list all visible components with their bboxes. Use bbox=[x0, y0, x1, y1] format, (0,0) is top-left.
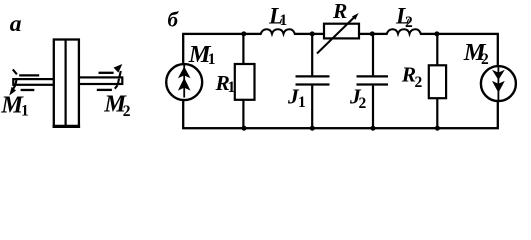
svg-text:1: 1 bbox=[280, 12, 288, 29]
svg-text:2: 2 bbox=[123, 103, 131, 120]
svg-text:2: 2 bbox=[405, 14, 413, 31]
svg-text:б: б bbox=[168, 8, 180, 32]
svg-text:1: 1 bbox=[208, 51, 216, 68]
svg-text:R: R bbox=[332, 0, 347, 23]
svg-text:2: 2 bbox=[481, 51, 489, 68]
svg-text:2: 2 bbox=[415, 74, 423, 91]
svg-text:1: 1 bbox=[228, 79, 236, 96]
svg-text:1: 1 bbox=[21, 103, 29, 120]
svg-text:2: 2 bbox=[359, 95, 367, 112]
svg-text:1: 1 bbox=[298, 94, 306, 111]
svg-text:а: а bbox=[10, 11, 22, 37]
